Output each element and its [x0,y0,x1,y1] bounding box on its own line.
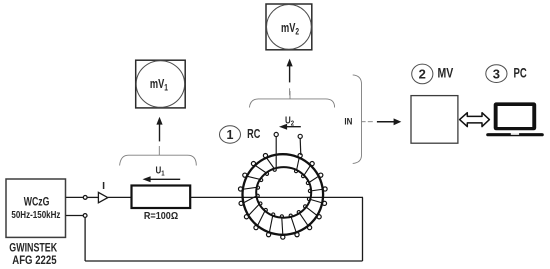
svg-text:AFG 2225: AFG 2225 [12,254,56,267]
secondary lead right [299,139,302,155]
generator label GWINSTEK AFG 2225 [9,241,57,267]
millivoltmeter mV2 [266,4,312,50]
svg-text:3: 3 [493,66,500,81]
terminal node bottom [83,214,87,218]
designator circle 3 [486,65,507,83]
arrow to millivoltmeter mV2 [287,59,293,83]
resistor R1 [132,186,191,209]
arrow to MV module [377,118,401,125]
buffer amplifier triangle [98,192,107,202]
voltage arrow U1 [143,176,181,182]
dashed link bracket to arrow [362,121,373,123]
svg-text:RC: RC [247,127,260,141]
wire generator bottom output [66,215,84,217]
arrow to millivoltmeter mV1 [156,117,162,142]
wire generator top output [66,196,84,198]
wire left vertical [84,218,86,262]
measurement bracket U2 [249,91,334,108]
svg-text:WCzG: WCzG [24,197,50,209]
svg-text:PC: PC [513,65,527,81]
svg-text:I: I [102,180,105,192]
dashed link to arrow mV2 [289,88,291,95]
bracket IN [353,75,362,163]
laptop PC icon [486,102,544,136]
millivoltmeter mV1 [136,60,186,108]
toroid secondary winding turns [238,153,327,239]
terminal node top [83,196,87,200]
terminal node U2 left [274,132,278,136]
terminal node U2 right [298,134,302,138]
svg-text:IN: IN [344,116,352,127]
wire resistor to toroid and across [190,196,363,198]
current transformer toroid core [242,154,323,235]
svg-text:R=100Ω: R=100Ω [144,210,178,222]
millivoltmeter module MV box [411,96,458,144]
svg-text:2: 2 [419,67,426,82]
svg-text:50Hz-150kHz: 50Hz-150kHz [11,209,60,220]
data link double arrow [460,113,490,127]
wire buffer to resistor [108,196,132,198]
generator WCzG box [6,179,66,237]
voltage arrow U2 [279,124,301,130]
designator circle 1 [220,126,241,143]
designator circle 2 [412,64,433,84]
measurement bracket U1 [120,146,197,166]
wire bottom return [85,260,362,262]
wire terminal to buffer [87,196,98,198]
secondary lead left [275,137,277,169]
svg-text:MV: MV [438,65,454,81]
wire right vertical [362,197,364,261]
svg-text:1: 1 [227,128,234,142]
svg-text:GWINSTEK: GWINSTEK [9,241,57,255]
